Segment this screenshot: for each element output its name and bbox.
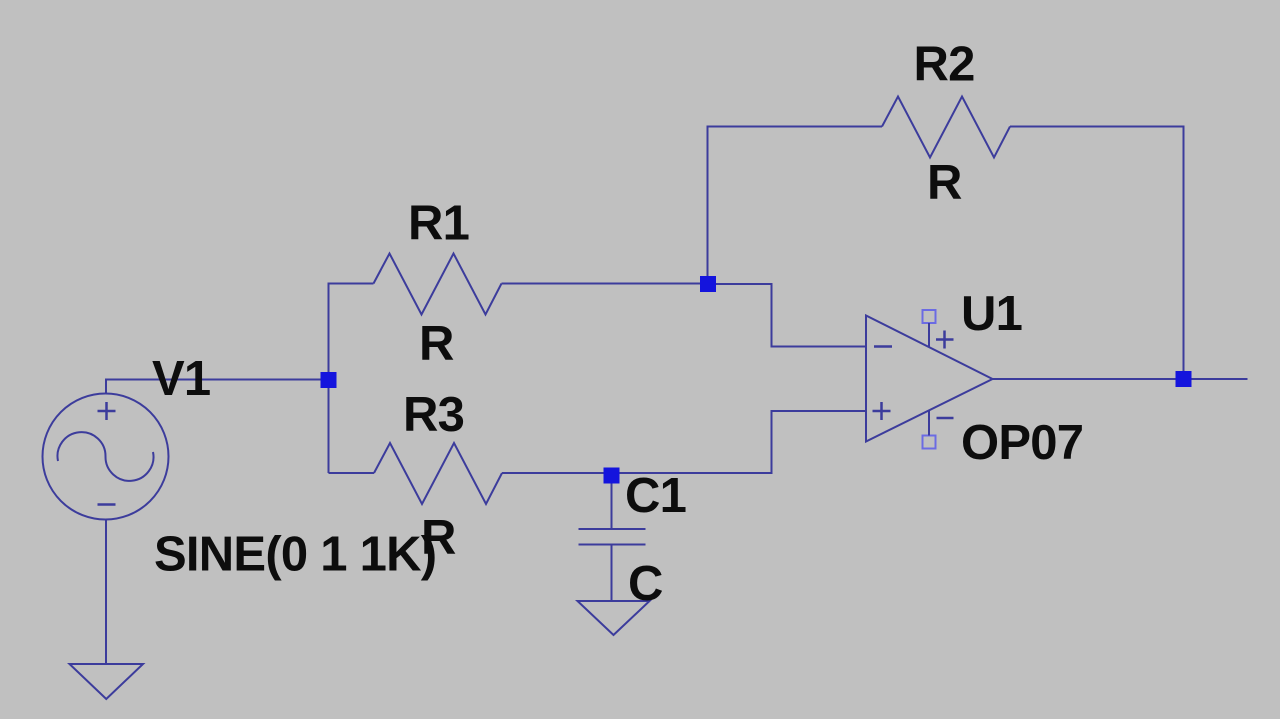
op-amp negative power pin [923, 411, 954, 449]
svg-text:R: R [421, 511, 456, 565]
svg-text:R: R [419, 317, 454, 371]
svg-text:R2: R2 [914, 38, 975, 92]
svg-text:V1: V1 [152, 352, 210, 406]
ground symbol at C1 [578, 601, 650, 635]
resistor R2 [882, 97, 1010, 158]
voltage source V1 [43, 394, 169, 520]
svg-text:R3: R3 [403, 388, 464, 442]
op-amp non-inverting input mark [873, 402, 891, 420]
svg-text:U1: U1 [961, 287, 1022, 341]
op-amp U1 triangle [866, 316, 993, 442]
wire: summing node up to R2 left lead [708, 127, 883, 285]
wire: summing node to op-amp inverting input [708, 284, 866, 347]
wire: input node vertical to R1 lead [329, 284, 374, 474]
node: C1 top junction [604, 468, 620, 484]
op-amp inverting input mark [874, 345, 892, 348]
node: summing junction [700, 276, 716, 292]
node: input junction [321, 372, 337, 388]
svg-text:SINE(0 1 1K): SINE(0 1 1K) [154, 528, 436, 582]
op-amp positive power pin [923, 310, 954, 349]
wire: V1 bottom lead to ground [105, 520, 107, 665]
svg-text:OP07: OP07 [961, 416, 1083, 470]
svg-text:R: R [927, 156, 962, 210]
svg-text:C: C [628, 557, 663, 611]
wire: R1 to summing node [502, 283, 709, 285]
node: output junction [1176, 371, 1192, 387]
ground symbol at V1 [70, 664, 144, 699]
resistor R3 [374, 443, 502, 504]
wire: V1 top lead to input node [106, 380, 329, 395]
wire: op-amp output [993, 378, 1248, 380]
capacitor C1 [579, 482, 646, 601]
resistor R1 [374, 254, 502, 315]
svg-text:R1: R1 [408, 197, 469, 251]
wire: R2 right lead down to output node [1010, 127, 1184, 380]
svg-text:C1: C1 [625, 469, 686, 523]
wire: input node to R3 left lead [329, 472, 375, 474]
wire: R3 through node C1 to op-amp non-inverting input [502, 411, 866, 473]
